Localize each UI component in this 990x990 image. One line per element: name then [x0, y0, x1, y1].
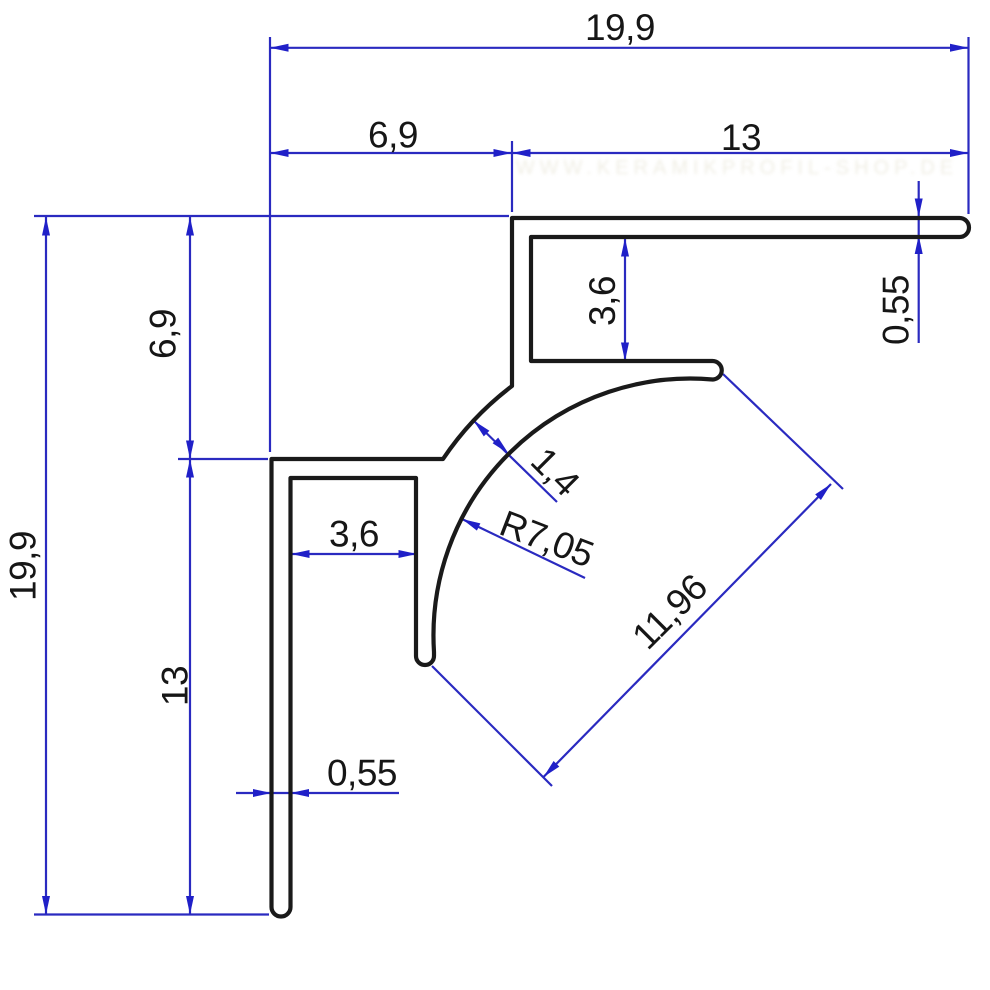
svg-text:WWW.KERAMIKPROFIL-SHOP.DE: WWW.KERAMIKPROFIL-SHOP.DE: [516, 157, 958, 179]
svg-text:0,55: 0,55: [327, 753, 397, 794]
svg-text:13: 13: [721, 117, 761, 158]
svg-text:19,9: 19,9: [585, 7, 655, 48]
svg-text:3,6: 3,6: [582, 276, 623, 326]
svg-text:3,6: 3,6: [329, 514, 379, 555]
svg-text:19,9: 19,9: [3, 531, 44, 601]
svg-text:0,55: 0,55: [876, 275, 917, 345]
svg-text:6,9: 6,9: [143, 309, 184, 359]
svg-text:6,9: 6,9: [368, 115, 418, 156]
svg-text:13: 13: [155, 666, 196, 706]
